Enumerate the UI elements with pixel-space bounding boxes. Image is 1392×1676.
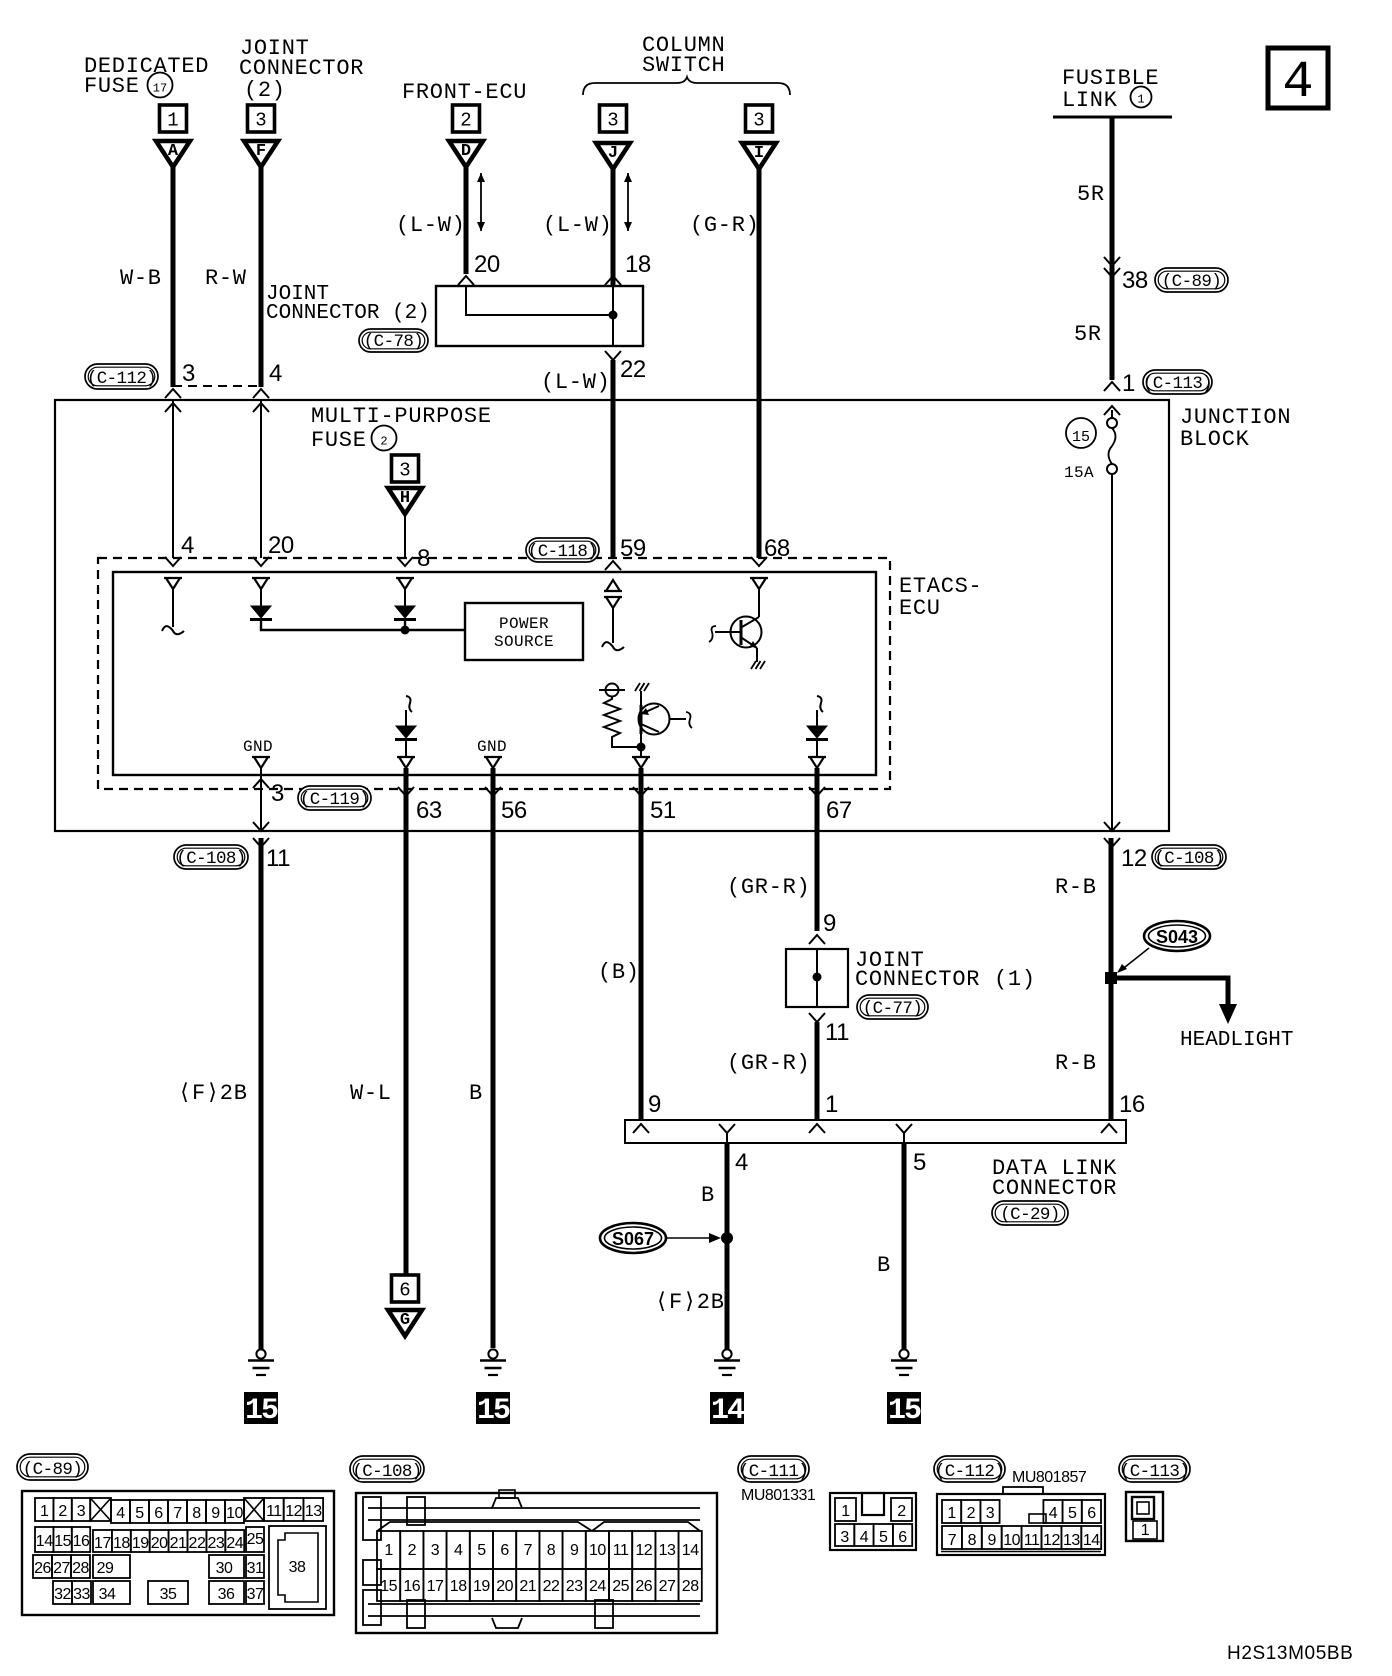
chevron wire 51 — [633, 787, 649, 796]
svg-text:11: 11 — [1024, 1532, 1040, 1549]
connector C-113 pinout — [1126, 1492, 1163, 1541]
connector label C-108 left — [174, 845, 248, 869]
wire pin3 to C-119 — [260, 768, 262, 831]
svg-text:16: 16 — [1119, 1091, 1145, 1118]
label DATA LINK CONNECTOR — [992, 1156, 1117, 1201]
svg-text:14: 14 — [1083, 1532, 1100, 1549]
connector C-111 pinout — [830, 1493, 916, 1550]
svg-text:20: 20 — [496, 1578, 513, 1595]
chevron wire 56 — [485, 787, 501, 796]
node junction dot in C-78 — [609, 311, 618, 320]
diode D4 wire lower — [405, 741, 407, 757]
ETACS pin 63 internal triangle — [397, 757, 415, 768]
connector tag 1 above A — [160, 105, 187, 132]
svg-text:FRONT-ECU: FRONT-ECU — [402, 80, 527, 105]
chevron C-108 pin 12 marks — [1104, 822, 1120, 831]
svg-text:12: 12 — [1043, 1532, 1060, 1549]
wire through C-77 — [816, 949, 818, 1007]
svg-text:(L-W): (L-W) — [541, 370, 611, 395]
svg-text:28: 28 — [682, 1578, 699, 1595]
svg-text:1: 1 — [1122, 370, 1135, 397]
svg-text:63: 63 — [416, 797, 442, 824]
svg-text:(C-108): (C-108) — [352, 1462, 421, 1482]
svg-text:8: 8 — [968, 1532, 977, 1549]
svg-text:H2S13M05BB: H2S13M05BB — [1227, 1643, 1353, 1664]
connector label C-112 bottom — [934, 1456, 1005, 1482]
connector label C-29 — [992, 1201, 1068, 1225]
chevron wire D end — [458, 276, 474, 285]
svg-text:5R: 5R — [1077, 182, 1105, 207]
ETACS pin 59 stub wire — [612, 608, 614, 643]
svg-text:12: 12 — [1121, 845, 1147, 872]
svg-text:17: 17 — [94, 1535, 111, 1552]
fuse circle top — [1107, 418, 1117, 428]
ETACS pin 59 internal double triangle — [604, 580, 622, 591]
svg-text:(C-111): (C-111) — [739, 1462, 808, 1482]
connector label C-119 — [298, 786, 371, 810]
chevron wire 63 — [398, 787, 414, 796]
svg-text:9: 9 — [988, 1532, 997, 1549]
chevron wire J at C-78 — [605, 276, 621, 285]
wire GR-R lower — [815, 1022, 820, 1120]
updown arrow near wire D — [480, 173, 482, 231]
svg-text:(L-W): (L-W) — [543, 213, 613, 238]
POWER SOURCE box — [465, 603, 583, 660]
connector tag 3 above H — [392, 455, 419, 482]
ETACS pin 56 internal triangle — [484, 757, 502, 768]
svg-text:19: 19 — [473, 1578, 490, 1595]
svg-text:29: 29 — [97, 1560, 114, 1577]
svg-text:33: 33 — [73, 1586, 90, 1603]
connector triangle I — [742, 143, 776, 169]
svg-text:5: 5 — [913, 1149, 926, 1176]
svg-text:9: 9 — [211, 1505, 220, 1522]
svg-text:(C-77): (C-77) — [863, 999, 922, 1019]
diode D2 at pin 8 — [404, 589, 406, 606]
svg-text:16: 16 — [73, 1533, 90, 1550]
svg-text:11: 11 — [266, 845, 290, 872]
ground id 14 box — [710, 1392, 745, 1428]
svg-text:3: 3 — [840, 1529, 849, 1546]
diode D3 wire at pin 67 — [816, 710, 818, 726]
wire 51 from ECU — [639, 768, 644, 1120]
svg-text:9: 9 — [648, 1091, 661, 1118]
svg-text:3: 3 — [753, 110, 764, 132]
svg-text:14: 14 — [682, 1542, 699, 1559]
svg-text:GND: GND — [477, 738, 507, 756]
svg-text:1: 1 — [40, 1503, 49, 1520]
svg-text:1: 1 — [167, 110, 178, 132]
svg-text:BLOCK: BLOCK — [1180, 427, 1250, 452]
connector label C-108 right — [1152, 845, 1226, 869]
ETACS pin 4 stub wire — [172, 589, 174, 627]
svg-text:17: 17 — [153, 82, 167, 96]
wire L-W (J down to C-78 pin 18) — [611, 168, 616, 286]
svg-text:(C-78): (C-78) — [364, 332, 423, 352]
svg-text:(C-89): (C-89) — [1162, 272, 1221, 292]
connector triangle A — [156, 141, 190, 167]
diode D3 lower wire — [816, 741, 818, 757]
svg-text:26: 26 — [34, 1560, 51, 1577]
svg-text:LINK: LINK — [1062, 88, 1118, 113]
ground symbol pin5 — [899, 1349, 908, 1358]
svg-text:56: 56 — [501, 797, 527, 824]
svg-text:7: 7 — [173, 1505, 182, 1522]
transistor Q1 — [709, 617, 762, 650]
label COLUMN SWITCH — [642, 33, 725, 78]
ETACS pin 67 squiggle — [817, 696, 823, 712]
updown arrow near wire J — [627, 173, 629, 231]
svg-text:5: 5 — [1068, 1505, 1077, 1522]
hatch mark above Q2 — [635, 683, 649, 691]
connector label C-108 bottom — [350, 1456, 424, 1482]
data link connector box — [625, 1120, 1126, 1143]
DLC pin 5 stem — [896, 1124, 912, 1133]
connector C-108 pinout — [356, 1490, 717, 1633]
svg-text:2: 2 — [380, 435, 387, 449]
svg-text:4: 4 — [1282, 53, 1313, 112]
connector tag 2 above D — [453, 105, 480, 132]
svg-text:38: 38 — [1122, 267, 1148, 294]
splice S067 oval — [600, 1223, 666, 1253]
svg-text:(C-108): (C-108) — [176, 849, 245, 869]
svg-text:4: 4 — [116, 1505, 125, 1522]
svg-text:13: 13 — [659, 1542, 676, 1559]
svg-text:CONNECTOR (2): CONNECTOR (2) — [266, 302, 430, 325]
svg-text:(B): (B) — [598, 960, 640, 985]
svg-text:FUSE: FUSE — [311, 428, 367, 453]
svg-text:(C-119): (C-119) — [300, 790, 369, 810]
node dot in C-77 — [813, 973, 822, 982]
headlight arrowhead — [1219, 1004, 1237, 1024]
svg-text:D: D — [461, 142, 471, 161]
svg-text:POWER: POWER — [499, 615, 549, 633]
svg-text:36: 36 — [218, 1586, 235, 1603]
chevron out of C-77 — [809, 1013, 825, 1022]
svg-text:3: 3 — [431, 1542, 440, 1559]
chevron DLC pin 9 — [633, 1124, 649, 1133]
svg-text:17: 17 — [427, 1578, 444, 1595]
svg-text:22: 22 — [620, 356, 646, 383]
svg-text:3: 3 — [986, 1505, 995, 1522]
chevron wire 22 below C-78 — [605, 351, 621, 360]
ETACS pin 8 internal triangle — [396, 578, 414, 589]
svg-text:23: 23 — [566, 1578, 583, 1595]
ETACS pin 3 internal triangle — [252, 757, 270, 768]
svg-text:15: 15 — [477, 1394, 510, 1428]
chevron DLC pin 1 — [809, 1124, 825, 1133]
chevron junction block entry F — [253, 389, 269, 398]
svg-text:10: 10 — [589, 1542, 606, 1559]
label DEDICATED FUSE (17) — [84, 54, 209, 99]
connector label C-89 bottom — [17, 1454, 88, 1480]
wire 67 from ECU — [815, 768, 820, 931]
svg-text:15: 15 — [888, 1394, 921, 1428]
svg-text:(L-W): (L-W) — [396, 213, 466, 238]
svg-text:2: 2 — [967, 1505, 976, 1522]
svg-text:23: 23 — [207, 1535, 224, 1552]
ETACS ECU box — [113, 572, 876, 775]
opto resistor circle terminal — [606, 684, 619, 697]
connector tag 6 below — [392, 1275, 419, 1302]
svg-text:4: 4 — [269, 360, 282, 387]
svg-text:4: 4 — [181, 532, 194, 559]
chevron pin 3 at C-119 — [253, 779, 269, 788]
wire G-R (I down to ETACS pin 68) — [757, 168, 762, 558]
svg-text:21: 21 — [170, 1535, 187, 1552]
ETACS pin 67 internal triangle — [808, 757, 826, 768]
svg-text:27: 27 — [659, 1578, 676, 1595]
fuse element squiggle — [1109, 428, 1116, 464]
ground symbol 56 — [488, 1349, 497, 1358]
svg-text:3: 3 — [271, 780, 284, 807]
ETACS pin 63 squiggle — [406, 696, 412, 712]
svg-text:1: 1 — [1137, 92, 1144, 106]
svg-text:24: 24 — [589, 1578, 606, 1595]
svg-text:CONNECTOR (1): CONNECTOR (1) — [855, 967, 1036, 992]
wire 63 from ECU — [404, 768, 409, 1275]
wire R1 to node — [612, 740, 637, 747]
svg-text:S067: S067 — [612, 1229, 654, 1249]
chevron ETACS pin 20 — [253, 557, 269, 566]
ETACS dashed boundary — [98, 558, 890, 789]
transistor Q2 — [639, 704, 693, 735]
svg-text:8: 8 — [192, 1505, 201, 1522]
svg-text:25: 25 — [247, 1531, 264, 1548]
svg-text:I: I — [754, 144, 764, 163]
svg-text:37: 37 — [247, 1586, 264, 1603]
ground symbol pin4 — [722, 1349, 731, 1358]
svg-text:9: 9 — [570, 1542, 579, 1559]
wire W-B (A down to C-112 pin 3) — [171, 166, 176, 387]
svg-text:4: 4 — [1049, 1505, 1058, 1522]
connector triangle J — [596, 143, 630, 169]
junction block outline — [55, 400, 1169, 831]
chevron DLC pin 16 — [1101, 1124, 1117, 1133]
brace over column switch — [583, 77, 790, 95]
svg-text:S043: S043 — [1156, 927, 1198, 947]
chevron C-108 pin 11 marks — [253, 822, 269, 831]
svg-text:26: 26 — [635, 1578, 652, 1595]
svg-text:13: 13 — [305, 1503, 322, 1520]
ETACS pin 51 internal triangle — [632, 757, 650, 768]
svg-text:59: 59 — [620, 535, 646, 562]
connector label C-111 bottom — [738, 1456, 809, 1482]
wire F-2B ground run — [259, 838, 264, 1349]
joint connector (1) C-77 box — [786, 949, 848, 1007]
svg-text:2: 2 — [897, 1503, 906, 1520]
wire I inside junction block — [757, 400, 762, 558]
wire 56 from ECU — [491, 768, 496, 1348]
svg-text:(C-113): (C-113) — [1143, 374, 1212, 394]
label JOINT CONNECTOR (2) top — [239, 36, 364, 103]
wire headlight branch — [1111, 978, 1228, 1006]
svg-text:3: 3 — [182, 360, 195, 387]
svg-text:30: 30 — [216, 1560, 233, 1577]
diode D1 at pin 20 — [260, 589, 262, 606]
svg-text:2: 2 — [460, 110, 471, 132]
svg-text:3: 3 — [399, 460, 410, 482]
chevron ETACS pin 8 — [397, 557, 413, 566]
resistor R1 zigzag — [604, 696, 620, 740]
svg-text:GND: GND — [243, 738, 273, 756]
svg-text:6: 6 — [500, 1542, 509, 1559]
wire L-W (D down to C-78 pin 20) — [464, 166, 469, 274]
svg-text:6: 6 — [1087, 1505, 1096, 1522]
connector triangle F — [244, 141, 278, 167]
svg-text:R-B: R-B — [1055, 875, 1097, 900]
connector label C-78 — [359, 329, 428, 352]
svg-text:FUSE: FUSE — [84, 74, 140, 99]
svg-text:MU801857: MU801857 — [1012, 1469, 1087, 1486]
wire J inside junction block — [611, 400, 616, 558]
svg-text:(C-29): (C-29) — [1000, 1205, 1059, 1225]
svg-text:14: 14 — [36, 1533, 53, 1550]
dashed link C-112 — [173, 385, 261, 387]
ETACS pin 68 internal triangle — [750, 578, 768, 589]
svg-text:R-B: R-B — [1055, 1051, 1097, 1076]
wire A inside junction block — [172, 400, 174, 558]
svg-text:(GR-R): (GR-R) — [727, 875, 810, 900]
svg-text:18: 18 — [113, 1535, 130, 1552]
page number box 4 — [1268, 48, 1328, 112]
svg-text:20: 20 — [151, 1535, 168, 1552]
chevron wire 67 — [809, 787, 825, 796]
wire H down to ETACS pin 8 — [404, 514, 406, 558]
svg-text:(GR-R): (GR-R) — [727, 1051, 810, 1076]
svg-text:20: 20 — [474, 251, 500, 278]
svg-text:J: J — [608, 144, 618, 163]
wire R-B — [1109, 838, 1114, 1120]
svg-text:(C-112): (C-112) — [87, 369, 156, 389]
svg-text:R-W: R-W — [205, 266, 247, 291]
wire from fuse down junction block — [1111, 474, 1113, 831]
wire F inside junction block — [260, 400, 262, 558]
svg-text:MULTI-PURPOSE: MULTI-PURPOSE — [311, 404, 492, 429]
chevron ETACS pin 68 — [751, 557, 767, 566]
fuse number circled 15 — [1066, 418, 1096, 448]
svg-text:31: 31 — [247, 1560, 264, 1577]
svg-text:5: 5 — [477, 1542, 486, 1559]
svg-text:15: 15 — [380, 1578, 397, 1595]
ground id 15 box right — [887, 1392, 921, 1428]
connector label C-89 inline — [1155, 268, 1228, 292]
svg-text:MU801331: MU801331 — [741, 1487, 816, 1504]
svg-text:1: 1 — [384, 1542, 393, 1559]
internal bus wire in C-78 — [466, 287, 613, 315]
svg-text:15: 15 — [245, 1394, 278, 1428]
wire B pin5 down — [902, 1143, 907, 1349]
label FUSIBLE LINK (1) — [1062, 66, 1159, 113]
chevron into C-77 — [809, 935, 825, 944]
svg-text:6: 6 — [898, 1529, 907, 1546]
connector tag 3 above I — [746, 105, 773, 132]
ground mark Q1 — [751, 661, 765, 669]
svg-text:W-L: W-L — [350, 1081, 392, 1106]
svg-text:G: G — [400, 1311, 410, 1330]
svg-text:1: 1 — [947, 1505, 956, 1522]
svg-text:5: 5 — [135, 1505, 144, 1522]
svg-text:51: 51 — [650, 797, 676, 824]
chevron fusible into junction block — [1104, 406, 1120, 415]
node S043 dot — [1105, 972, 1117, 984]
svg-text:SWITCH: SWITCH — [642, 53, 725, 78]
svg-text:25: 25 — [612, 1578, 629, 1595]
label JOINT CONNECTOR (1) — [855, 948, 1036, 992]
svg-text:4: 4 — [454, 1542, 463, 1559]
svg-text:11: 11 — [613, 1542, 629, 1559]
svg-text:68: 68 — [764, 535, 790, 562]
ETACS pin 4 internal triangle — [164, 578, 182, 589]
svg-text:7: 7 — [524, 1542, 533, 1559]
svg-text:H: H — [400, 489, 410, 508]
ground id 15 box left — [244, 1392, 278, 1428]
svg-text:7: 7 — [948, 1532, 957, 1549]
fusible link bus bar — [1053, 116, 1172, 119]
wire above fuse — [1111, 410, 1113, 419]
ETACS pin 20 internal triangle — [252, 578, 270, 589]
double chevron on 5R wire — [1104, 257, 1120, 266]
label MULTI-PURPOSE FUSE (2) — [311, 404, 492, 453]
svg-text:B: B — [701, 1183, 715, 1208]
chevron wire end at C-113 — [1104, 382, 1120, 391]
svg-text:14: 14 — [711, 1394, 745, 1428]
svg-text:CONNECTOR: CONNECTOR — [992, 1176, 1117, 1201]
svg-text:11: 11 — [266, 1503, 282, 1520]
transistor Q1 emitter wire — [756, 648, 758, 662]
svg-text:3: 3 — [255, 110, 266, 132]
svg-text:24: 24 — [226, 1535, 243, 1552]
svg-text:4: 4 — [735, 1149, 748, 1176]
wire B pin4 down — [725, 1143, 730, 1349]
svg-text:15: 15 — [54, 1533, 71, 1550]
svg-text:(C-113): (C-113) — [1120, 1462, 1189, 1482]
svg-text:9: 9 — [823, 910, 836, 937]
connector triangle H — [388, 488, 422, 514]
svg-text:2: 2 — [58, 1503, 67, 1520]
ETACS pin 59 squiggle — [602, 642, 624, 650]
connector tag 3 above F — [248, 105, 275, 132]
svg-text:19: 19 — [132, 1535, 149, 1552]
wire diode D2 to bus — [404, 621, 406, 630]
svg-text:10: 10 — [226, 1505, 243, 1522]
wire R-W (F down to C-112 pin 4) — [259, 166, 264, 387]
svg-text:1: 1 — [1141, 1522, 1150, 1539]
svg-text:6: 6 — [399, 1280, 410, 1302]
svg-text:SOURCE: SOURCE — [494, 633, 554, 651]
transistor Q2 base wire — [640, 691, 642, 705]
svg-text:22: 22 — [189, 1535, 206, 1552]
connector C-89 pinout — [22, 1491, 334, 1615]
svg-text:12: 12 — [285, 1503, 302, 1520]
svg-text:B: B — [469, 1081, 483, 1106]
svg-text:8: 8 — [547, 1542, 556, 1559]
svg-text:ECU: ECU — [899, 596, 941, 621]
connector triangle G — [388, 1310, 422, 1336]
svg-text:22: 22 — [543, 1578, 560, 1595]
svg-text:1: 1 — [825, 1091, 838, 1118]
wire J through C-78 — [612, 287, 614, 346]
wire Q2 node to pin 51 — [640, 747, 642, 757]
node dot on power bus — [401, 626, 410, 635]
svg-text:18: 18 — [625, 251, 651, 278]
svg-text:⟨F⟩2B: ⟨F⟩2B — [655, 1290, 725, 1315]
label ETACS-ECU — [899, 574, 982, 621]
label JOINT CONNECTOR (2) mid — [266, 283, 430, 325]
svg-text:27: 27 — [53, 1560, 70, 1577]
connector label C-113 inline — [1143, 370, 1212, 394]
svg-text:4: 4 — [860, 1529, 869, 1546]
